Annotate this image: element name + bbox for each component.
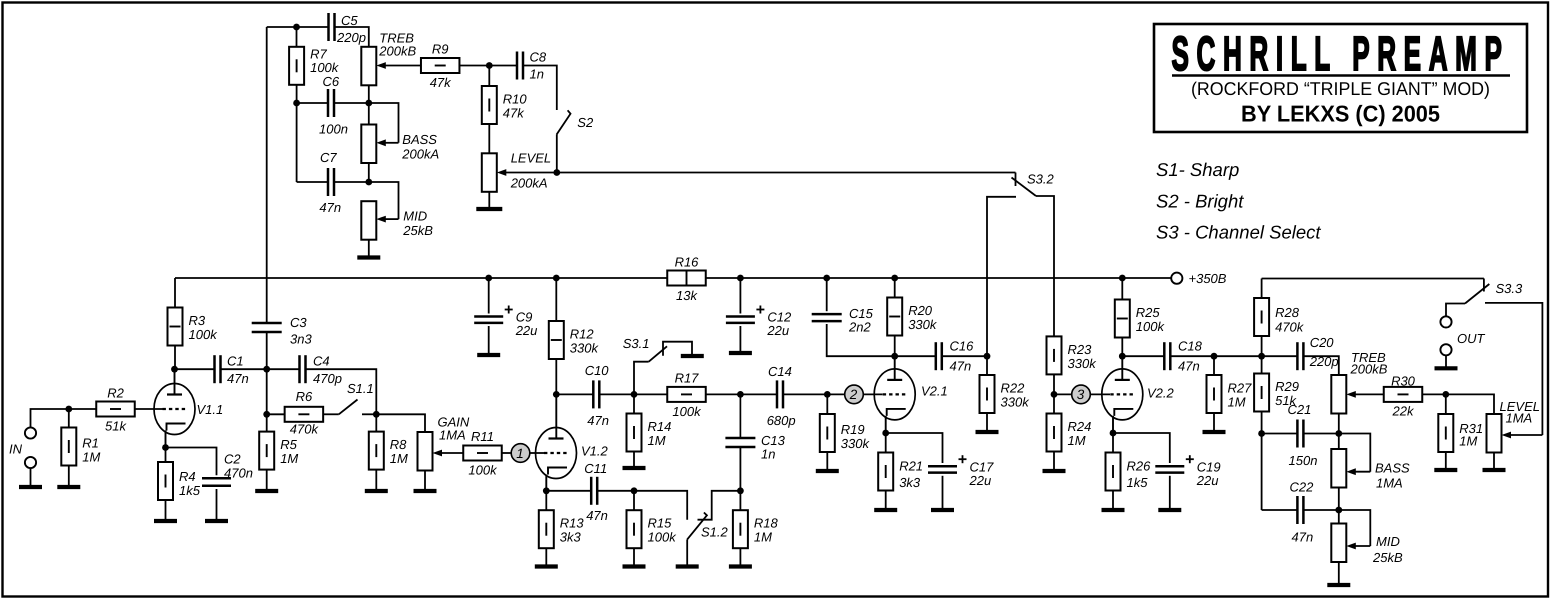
wire R22 to ground: [986, 413, 988, 430]
capacitor C10: [593, 380, 599, 408]
node A: [263, 366, 270, 373]
node D: [1051, 391, 1058, 398]
ground MID output: [1327, 583, 1350, 587]
ground C12: [729, 351, 752, 355]
svg-text:3: 3: [1077, 387, 1085, 402]
wire R26 to ground: [1112, 491, 1114, 509]
svg-text:C14: C14: [768, 364, 792, 379]
svg-text:R6: R6: [296, 389, 313, 404]
resistor R14: [627, 414, 672, 452]
switch S2 blade: [557, 110, 571, 134]
wire R2 to V1.1 grid: [135, 408, 163, 410]
resistor R16: [667, 255, 706, 304]
node V2.2 cathode: [1110, 430, 1117, 437]
svg-text:470p: 470p: [313, 371, 342, 386]
svg-text:22u: 22u: [766, 323, 789, 338]
svg-text:R12: R12: [570, 327, 595, 342]
wire R29 to C21 node: [1261, 412, 1263, 434]
wire R20 to anode node: [894, 336, 896, 357]
wire cathode to C2: [166, 448, 217, 476]
svg-text:R29: R29: [1275, 379, 1299, 394]
svg-text:C3: C3: [290, 315, 307, 330]
svg-text:C22: C22: [1290, 480, 1315, 495]
node rail R25: [1119, 275, 1126, 282]
svg-text:47n: 47n: [586, 508, 608, 523]
node rail R20: [891, 275, 898, 282]
wire C15 to anode node: [827, 324, 895, 356]
wire node to GAIN pot: [376, 414, 425, 432]
wire node D to conn 3: [1054, 393, 1072, 395]
svg-text:47k: 47k: [430, 75, 452, 90]
node C18/R27: [1211, 353, 1218, 360]
wire R14 top: [633, 394, 635, 413]
svg-text:47n: 47n: [587, 413, 609, 428]
svg-text:51k: 51k: [105, 419, 127, 434]
wire cathode to R4: [165, 448, 167, 463]
wire LEVEL to S3.2: [557, 172, 1016, 174]
wire C19 to ground: [1169, 476, 1171, 508]
wiper BASS output loop: [1339, 434, 1371, 472]
wire MID top: [1338, 510, 1340, 524]
wire C20 to TREB pot: [1304, 356, 1339, 375]
wire C18 to R27 node: [1171, 355, 1215, 357]
wire R30 to R31 node: [1422, 393, 1446, 395]
svg-text:200kB: 200kB: [378, 44, 416, 59]
ground R18: [729, 564, 752, 568]
svg-text:3k3: 3k3: [560, 530, 582, 545]
svg-text:(ROCKFORD “TRIPLE GIANT” MOD): (ROCKFORD “TRIPLE GIANT” MOD): [1191, 78, 1490, 99]
wire C14 to conn 2: [783, 393, 844, 395]
resistor R3: [168, 308, 219, 346]
svg-text:C18: C18: [1178, 339, 1203, 354]
potentiometer GAIN 1MA: [418, 432, 433, 471]
svg-text:R20: R20: [908, 303, 933, 318]
wire rail to C15: [826, 278, 828, 311]
wire C6 right: [334, 102, 369, 104]
svg-text:47k: 47k: [503, 106, 525, 121]
potentiometer LEVEL 200kA: [482, 153, 497, 192]
svg-text:680p: 680p: [767, 413, 796, 428]
svg-text:330k: 330k: [1001, 395, 1031, 410]
svg-text:V1.1: V1.1: [197, 402, 224, 417]
ground S1.2: [676, 564, 699, 568]
wire R10 top: [488, 66, 490, 87]
svg-text:25kB: 25kB: [402, 223, 433, 238]
wire R29 top: [1261, 356, 1263, 373]
svg-text:+350B: +350B: [1189, 271, 1227, 286]
triode V1.2: [536, 428, 609, 479]
svg-text:22u: 22u: [969, 473, 992, 488]
potentiometer BASS 200kA (input stack): [361, 125, 376, 164]
ground S3.1: [681, 354, 704, 358]
wire C7 left: [297, 181, 328, 183]
resistor R6: [285, 389, 324, 437]
ground R15: [623, 564, 646, 568]
wire R6 to S1.1: [323, 413, 339, 415]
resistor R4: [158, 462, 201, 500]
wire C17 to ground: [942, 476, 944, 508]
resistor R23: [1047, 336, 1098, 374]
resistor R18: [733, 510, 779, 548]
svg-text:1n: 1n: [530, 67, 544, 82]
svg-text:22u: 22u: [1196, 473, 1219, 488]
resistor R12: [549, 321, 600, 359]
svg-text:R14: R14: [648, 419, 672, 434]
capacitor C12 22u: [726, 306, 792, 339]
wire V1.2 anode: [555, 394, 557, 438]
capacitor C21: [1297, 420, 1303, 448]
capacitor C22: [1297, 496, 1303, 524]
wire rail to C12: [739, 278, 741, 314]
terminal IN bottom: [25, 457, 36, 468]
svg-text:47n: 47n: [1292, 530, 1314, 545]
wire node B to R17: [634, 393, 667, 395]
wire node E to C20: [1262, 355, 1298, 357]
resistor R17: [667, 371, 706, 420]
ground R21: [874, 508, 897, 512]
switch S3.3 pivot stub: [1483, 279, 1485, 292]
capacitor C7: [328, 168, 334, 196]
wire node to R6: [267, 413, 285, 415]
node rail C12: [737, 275, 744, 282]
svg-text:C11: C11: [584, 461, 607, 476]
node rail R12: [553, 275, 560, 282]
ground R14: [623, 466, 646, 470]
wire R10 to LEVEL pot: [488, 124, 490, 153]
capacitor C20: [1297, 342, 1303, 370]
wire R28 to node E: [1261, 336, 1263, 357]
capacitor C8: [517, 52, 523, 80]
wire BASS bottom: [368, 163, 370, 182]
svg-text:S3.1: S3.1: [623, 336, 650, 351]
wire R31 to ground: [1445, 452, 1447, 468]
wire node to S1.2 left contact: [634, 491, 687, 520]
potentiometer MID 25kB (output stack): [1331, 524, 1346, 563]
wire IN bottom to ground: [30, 468, 32, 487]
wire S3.2 to R23: [1036, 196, 1054, 336]
node V2.2 anode: [1119, 353, 1126, 360]
switch S3.2 pivot stub: [1015, 173, 1017, 187]
wire R24 top: [1053, 394, 1055, 413]
svg-text:1M: 1M: [390, 451, 408, 466]
potentiometer LEVEL 1MA: [1487, 414, 1502, 453]
svg-text:R10: R10: [503, 92, 528, 107]
svg-text:C16: C16: [950, 339, 975, 354]
resistor R24: [1047, 414, 1092, 452]
wire node A to C4: [267, 368, 300, 370]
svg-text:C8: C8: [530, 50, 547, 65]
wire V1.1 cathode lead: [165, 431, 167, 448]
node R29/C21: [1258, 430, 1265, 437]
wire rail to R3: [174, 278, 176, 308]
svg-text:1M: 1M: [1228, 395, 1246, 410]
wire C22 left: [1262, 509, 1298, 511]
svg-text:R22: R22: [1001, 381, 1026, 396]
ground LEVEL pot: [476, 207, 502, 211]
wire node A up to C3: [266, 332, 268, 370]
wire cathode to R21: [885, 433, 887, 453]
svg-text:C10: C10: [585, 363, 610, 378]
svg-text:S1.2: S1.2: [701, 525, 729, 540]
wiper LEVEL output: [1502, 432, 1543, 439]
wire R4 to ground: [165, 500, 167, 521]
node TREB/BASS: [365, 100, 372, 107]
terminal OUT top: [1440, 316, 1451, 327]
ground R31: [1434, 468, 1457, 472]
wire R18 top: [739, 491, 741, 510]
wire node to C8: [489, 65, 517, 67]
node connector 3: [1072, 385, 1091, 404]
wire C11 to R15 node: [597, 490, 634, 492]
node R9/C8/R10: [486, 62, 493, 69]
wire C4 to R8 node: [306, 369, 377, 414]
resistor R5: [259, 432, 298, 470]
wire R28 top line to S3.3: [1262, 278, 1484, 280]
svg-text:13k: 13k: [676, 288, 698, 303]
node BASS/MID: [365, 179, 372, 186]
wire R25 to anode node: [1121, 338, 1123, 357]
node R5/R6: [263, 411, 270, 418]
node C: [737, 391, 744, 398]
node connector 2: [845, 385, 864, 404]
resistor R13: [539, 510, 585, 548]
svg-text:LEVEL: LEVEL: [511, 151, 551, 166]
wire R28 top lead: [1261, 279, 1263, 299]
wire R17 to node C: [706, 393, 741, 395]
wire cathode to C19: [1113, 433, 1170, 463]
svg-text:S1.1: S1.1: [347, 381, 374, 396]
svg-text:3k3: 3k3: [899, 475, 921, 490]
wire R19 to ground: [826, 452, 828, 469]
wire conn 3 to V2.2 grid: [1091, 393, 1111, 395]
svg-text:22u: 22u: [515, 323, 538, 338]
wire R21 to ground: [885, 491, 887, 509]
node input junction: [65, 406, 72, 413]
svg-text:1MA: 1MA: [439, 428, 466, 443]
wire R3 to anode node: [174, 346, 176, 370]
svg-text:MID: MID: [403, 209, 427, 224]
wire C7 right: [334, 181, 369, 183]
wiper MID arrow: [376, 216, 398, 223]
node rail C15: [823, 275, 830, 282]
wiper BASS loop: [369, 103, 399, 143]
resistor R1: [61, 428, 100, 466]
wire R27 top: [1213, 356, 1215, 375]
wire R18 to ground: [739, 548, 741, 564]
svg-text:MID: MID: [1376, 534, 1400, 549]
svg-text:470k: 470k: [1275, 320, 1305, 335]
ground R22: [976, 430, 999, 434]
node R15/S1.2: [631, 487, 638, 494]
svg-text:C1: C1: [227, 354, 244, 369]
ground R26: [1102, 508, 1125, 512]
wire cathode to R13: [545, 491, 547, 510]
wire C2 to ground: [216, 489, 218, 521]
node TREB/BASS output: [1335, 430, 1342, 437]
svg-text:R9: R9: [432, 42, 449, 57]
wire conn 2 to V2.1 grid: [864, 393, 883, 395]
wire R8 to ground: [375, 470, 377, 491]
ground R13: [535, 564, 558, 568]
wire R8 top: [375, 414, 377, 431]
svg-text:1k5: 1k5: [1127, 475, 1149, 490]
svg-text:1M: 1M: [82, 450, 100, 465]
node C16/R22: [984, 353, 991, 360]
resistor R11: [463, 429, 502, 478]
svg-text:R21: R21: [899, 459, 923, 474]
svg-text:330k: 330k: [1068, 356, 1098, 371]
node BASS/MID output: [1335, 507, 1342, 514]
svg-text:S3.2: S3.2: [1027, 172, 1055, 187]
switch S3.3 blade: [1465, 284, 1489, 304]
wire rail to R25: [1121, 278, 1123, 300]
resistor R9: [421, 42, 460, 91]
svg-text:S3.3: S3.3: [1496, 281, 1524, 296]
svg-text:R2: R2: [107, 386, 124, 401]
svg-text:R5: R5: [280, 437, 297, 452]
resistor R21: [878, 453, 923, 491]
wire R27 node to output stack: [1214, 355, 1262, 357]
node S1.2/R18: [737, 487, 744, 494]
svg-text:R28: R28: [1275, 305, 1300, 320]
terminal OUT bottom: [1440, 344, 1451, 355]
wire BASS top: [1338, 434, 1340, 450]
wire R12 to anode node: [555, 359, 557, 394]
node tonestack top: [293, 24, 300, 31]
resistor R25: [1115, 300, 1166, 338]
wire LEVEL pot to ground: [488, 192, 490, 209]
svg-text:25kB: 25kB: [1372, 550, 1403, 565]
resistor R27: [1207, 375, 1253, 413]
wiper GAIN from R11: [433, 450, 464, 457]
wire S2 to LEVEL node: [556, 135, 558, 173]
wire V1.2 cathode lead: [545, 475, 547, 491]
wire node C to C13: [739, 394, 741, 438]
svg-text:100n: 100n: [319, 122, 348, 137]
svg-text:R1: R1: [82, 436, 99, 451]
resistor R10: [482, 86, 528, 124]
svg-text:R26: R26: [1127, 459, 1152, 474]
wire R11 to conn 1: [502, 452, 511, 454]
svg-text:C21: C21: [1288, 402, 1312, 417]
switch S1.2 blade: [687, 513, 707, 540]
node connector 1: [511, 444, 530, 463]
ground MID pot: [357, 255, 380, 259]
svg-text:1MA: 1MA: [1376, 476, 1403, 491]
svg-text:IN: IN: [9, 442, 23, 457]
wire node C to C14: [740, 393, 776, 395]
wire C21 right: [1304, 433, 1339, 435]
switch S3.2 blade: [1012, 178, 1037, 197]
svg-text:200kA: 200kA: [510, 176, 548, 191]
svg-text:C5: C5: [341, 13, 358, 28]
capacitor C17 22u: [928, 455, 994, 488]
wire R1 lead: [68, 409, 70, 428]
switch S3.1 contact: [663, 342, 692, 356]
svg-text:R17: R17: [675, 371, 700, 386]
wire node A down to R5/R6: [266, 369, 268, 431]
node R19 top: [824, 391, 831, 398]
wire OUT bottom to ground: [1445, 355, 1447, 367]
wire LEVEL pot to ground: [1493, 453, 1495, 469]
wire node to LEVEL pot: [1446, 394, 1494, 414]
wire MID bottom to ground: [1338, 562, 1340, 583]
wire +350V rail left segment: [175, 277, 667, 279]
svg-text:100k: 100k: [310, 60, 340, 75]
ground GAIN pot: [414, 489, 437, 493]
wire S1.2 to ground: [686, 539, 688, 564]
ground C17: [931, 508, 954, 512]
node B: [631, 391, 638, 398]
ground R24: [1043, 469, 1066, 473]
resistor R26: [1106, 453, 1152, 491]
svg-text:47n: 47n: [1178, 359, 1200, 374]
wire cathode to C17: [886, 433, 943, 463]
svg-text:100k: 100k: [672, 404, 702, 419]
wire tonestack top: [267, 26, 297, 28]
wire C5 to TREB pot: [335, 27, 369, 47]
wire TREB bottom: [368, 85, 370, 103]
potentiometer BASS 1MA (output stack): [1331, 449, 1346, 488]
wire R15 top: [633, 491, 635, 510]
svg-text:R11: R11: [471, 429, 494, 444]
svg-text:150n: 150n: [1289, 453, 1318, 468]
resistor R15: [627, 510, 678, 548]
wire R31 top: [1445, 394, 1447, 414]
terminal IN top: [25, 427, 36, 438]
svg-text:R30: R30: [1391, 374, 1416, 389]
wiper MID output loop: [1339, 510, 1371, 546]
terminal +350B: [1171, 273, 1182, 284]
ground C2: [205, 519, 228, 523]
wire anode node to C10: [556, 393, 593, 395]
ground R4: [154, 519, 177, 523]
svg-text:47n: 47n: [227, 371, 249, 386]
svg-text:C2: C2: [224, 452, 241, 467]
svg-text:R24: R24: [1068, 419, 1092, 434]
svg-text:47n: 47n: [950, 359, 972, 374]
capacitor C14: [777, 380, 783, 408]
ground LEVEL pot output: [1483, 468, 1506, 472]
switch S3.1 blade: [649, 346, 667, 361]
node V2.1 cathode: [882, 430, 889, 437]
svg-text:1k5: 1k5: [179, 483, 201, 498]
triode V2.1: [874, 369, 948, 420]
svg-text:R15: R15: [648, 516, 673, 531]
resistor R29: [1254, 374, 1299, 412]
wire S1.1 contact: [362, 413, 376, 415]
svg-text:100k: 100k: [189, 327, 219, 342]
wire R24 to ground: [1053, 452, 1055, 470]
ground R5: [255, 489, 278, 493]
wire S3.3 branch to LEVEL wiper: [1485, 303, 1542, 435]
capacitor C3: [252, 323, 282, 332]
switch S1.1 blade: [339, 400, 358, 415]
node V1.1 anode: [171, 366, 178, 373]
capacitor C9 22u: [474, 306, 537, 339]
node R12/C10: [553, 391, 560, 398]
capacitor C13: [725, 438, 755, 447]
wire anode to C1: [175, 368, 214, 370]
svg-text:100k: 100k: [1136, 319, 1166, 334]
node V1.2 cathode: [543, 487, 550, 494]
wire V2.1 cathode lead: [885, 416, 887, 433]
wire R27 to ground: [1213, 413, 1215, 430]
wire C3 up to tonestack: [266, 27, 268, 324]
wiper TREB to R9: [376, 62, 421, 69]
wire S3.2 left contact down to C16 node: [987, 197, 1016, 356]
svg-text:R23: R23: [1068, 342, 1093, 357]
